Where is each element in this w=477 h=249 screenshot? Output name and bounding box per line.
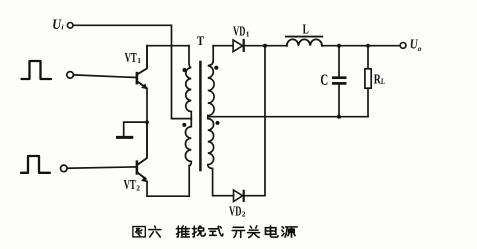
svg-text:2: 2 [242,210,246,219]
svg-text:C: C [320,72,328,89]
svg-text:1: 1 [246,29,250,38]
svg-text:VD: VD [229,205,241,220]
svg-text:VD: VD [233,24,245,39]
svg-text:VT: VT [124,178,137,193]
svg-text:VT: VT [125,51,138,66]
svg-text:o: o [418,44,422,53]
svg-text:1: 1 [137,56,141,65]
svg-text:i: i [61,23,64,32]
svg-text:2: 2 [136,183,140,192]
svg-text:L: L [381,77,385,86]
svg-text:L: L [303,22,309,37]
svg-text:T: T [197,34,205,48]
